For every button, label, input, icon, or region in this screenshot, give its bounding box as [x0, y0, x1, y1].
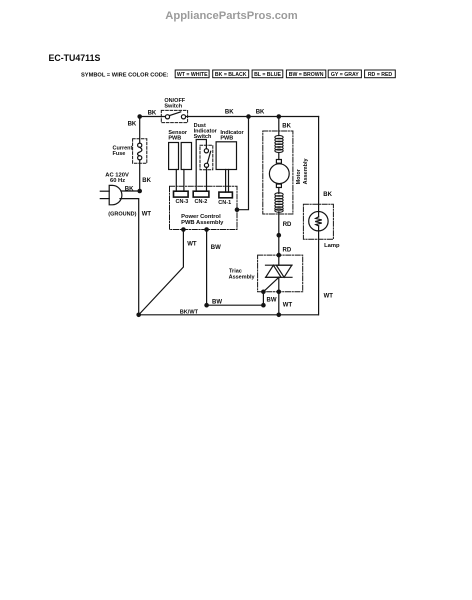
wire: coil to brush — [278, 153, 280, 160]
motor brush top — [276, 160, 281, 164]
lamp dashed enclosure — [303, 204, 333, 239]
node: triac box top terminal — [277, 253, 282, 258]
wire: motor feed BK from top rail junction — [278, 117, 280, 136]
svg-text:PWB: PWB — [220, 136, 233, 142]
svg-text:BL = BLUE: BL = BLUE — [254, 72, 281, 78]
svg-text:CN-1: CN-1 — [218, 200, 231, 206]
svg-text:RD: RD — [283, 222, 292, 228]
wire: BK vertical from fuse to plug node — [139, 160, 141, 191]
svg-text:(GROUND): (GROUND) — [108, 212, 136, 218]
wire: BW from PWB assembly down — [206, 230, 208, 306]
svg-text:BK: BK — [256, 110, 265, 116]
svg-text:BK: BK — [148, 110, 157, 116]
wire: sensor PWB left lead to CN-3 — [175, 170, 177, 192]
triac assembly dashed enclosure — [258, 255, 303, 292]
current fuse bottom contact — [138, 156, 142, 160]
svg-text:Lamp: Lamp — [324, 243, 340, 249]
node: plug hot / fuse junction — [137, 189, 142, 194]
lamp filament — [315, 217, 322, 226]
current fuse dashed enclosure — [133, 139, 147, 163]
wire: triac gate diagonal — [263, 277, 278, 292]
wire: top rail from on/off switch to top-right corner — [186, 116, 319, 118]
wire: triac top terminal to symbol — [278, 255, 280, 265]
svg-text:WT: WT — [187, 241, 197, 247]
current fuse element (s-curve) — [138, 147, 142, 155]
triac right triangle — [276, 265, 292, 277]
wire: gate down BW — [262, 292, 264, 305]
motor field coil top — [275, 136, 283, 153]
svg-text:BK: BK — [225, 110, 234, 116]
wire: RD from motor down to triac — [278, 212, 280, 255]
indicator PWB board — [216, 142, 236, 170]
svg-text:PWB: PWB — [168, 136, 181, 142]
wire: plug neutral lead going right then down (WT) — [120, 199, 139, 315]
current fuse top contact — [138, 143, 142, 147]
svg-text:GY = GRAY: GY = GRAY — [331, 72, 359, 78]
svg-text:Fuse: Fuse — [113, 151, 126, 157]
svg-text:Switch: Switch — [194, 134, 212, 140]
node: top rail to PWB feed — [246, 114, 251, 119]
lamp bulb — [309, 212, 328, 231]
node: triac gate at box edge — [261, 290, 266, 295]
svg-text:BK: BK — [282, 124, 291, 130]
node: top rail to motor — [277, 114, 282, 119]
node: PWB assembly WT terminal — [181, 227, 186, 232]
svg-text:BW: BW — [211, 245, 221, 251]
node: triac to bottom rail — [277, 313, 282, 318]
connector CN-1 — [219, 192, 233, 198]
node: RD mid junction — [277, 233, 282, 238]
AC plug body — [109, 185, 122, 204]
node: BW left end — [204, 303, 209, 308]
dust indicator switch lever — [207, 151, 210, 163]
wire: BW horizontal to triac gate — [207, 304, 264, 306]
on/off switch contact left — [165, 115, 169, 119]
node: top-left junction — [137, 114, 142, 119]
legend box RD = RED — [365, 70, 396, 78]
wire: triac anode drop to bottom rail — [278, 277, 280, 315]
dust indicator switch contact top — [204, 149, 208, 153]
motor field coil bottom — [275, 193, 283, 213]
wire: into lamp — [318, 212, 320, 218]
wire color labels — [125, 110, 333, 316]
node: triac anode at box edge — [277, 290, 282, 295]
wire: right BK drop from top rail corner down to lamp box — [318, 117, 320, 212]
node: PWB assembly BW terminal — [204, 227, 209, 232]
svg-text:CN-2: CN-2 — [195, 199, 208, 205]
svg-text:WT: WT — [324, 293, 334, 299]
AC plug prong top — [100, 190, 109, 192]
motor assembly dashed enclosure — [263, 131, 293, 214]
svg-text:Switch: Switch — [164, 104, 182, 110]
wire: BK feed from top rail down right side into PWB assembly — [237, 117, 249, 210]
svg-text:SYMBOL = WIRE COLOR CODE:: SYMBOL = WIRE COLOR CODE: — [81, 72, 169, 78]
svg-text:60 Hz: 60 Hz — [110, 178, 125, 184]
on/off switch dashed enclosure — [161, 110, 187, 122]
svg-text:EC-TU4711S: EC-TU4711S — [49, 53, 101, 63]
wire: top rail from node A to on/off switch — [140, 116, 166, 118]
legend box BW = BROWN — [286, 70, 325, 78]
wire: indicator PWB lead to CN-1 (double) — [225, 170, 227, 193]
connector CN-3 — [174, 191, 189, 197]
svg-text:BW: BW — [212, 299, 222, 305]
svg-text:BW = BROWN: BW = BROWN — [289, 72, 324, 78]
svg-text:BK: BK — [323, 192, 332, 198]
dust indicator switch contact bottom — [204, 163, 208, 167]
svg-text:WT = WHITE: WT = WHITE — [177, 72, 208, 78]
motor brush bottom — [276, 184, 281, 187]
wire: brush to coil — [278, 188, 280, 194]
svg-text:BK = BLACK: BK = BLACK — [215, 72, 247, 78]
connector CN-2 — [193, 191, 209, 197]
dust indicator switch body right lower edge — [206, 167, 208, 191]
sensor PWB right board — [181, 143, 191, 170]
svg-text:Assembly: Assembly — [303, 157, 309, 184]
svg-text:AppliancePartsPros.com: AppliancePartsPros.com — [165, 10, 297, 22]
node: bottom-left corner — [136, 313, 141, 318]
node: PWB assembly right terminal — [235, 207, 240, 212]
dust indicator switch body outline — [196, 140, 206, 192]
on/off switch lever — [169, 112, 180, 116]
legend box GY = GRAY — [328, 70, 361, 78]
wire: plug hot lead to node B — [121, 190, 140, 192]
wire: sensor PWB right lead to CN-3 — [183, 170, 185, 192]
svg-text:CN-3: CN-3 — [176, 199, 189, 205]
svg-text:Motor: Motor — [296, 168, 302, 184]
power control PWB assembly enclosure — [170, 186, 238, 229]
legend box BK = BLACK — [213, 70, 249, 78]
wire: WT from PWB assembly down then diagonal to bottom-left corner — [139, 230, 184, 315]
sensor PWB left board — [169, 143, 179, 170]
wire: lamp to bottom rail (WT) — [318, 226, 320, 315]
svg-text:RD = RED: RD = RED — [368, 72, 393, 78]
svg-text:BK: BK — [125, 186, 134, 192]
triac left triangle — [266, 265, 281, 277]
wire: bottom rail BK/WT and WT — [139, 314, 319, 316]
on/off switch contact right — [181, 115, 185, 119]
component name labels — [105, 98, 340, 280]
triac bottom rail — [266, 276, 293, 278]
legend box WT = WHITE — [175, 70, 209, 78]
svg-text:BK: BK — [142, 178, 151, 184]
triac top rail — [266, 264, 293, 266]
node: BW corner — [261, 303, 266, 308]
svg-text:BW: BW — [267, 298, 277, 304]
svg-text:WT: WT — [283, 303, 293, 309]
wire: BK vertical from node A down to current fuse — [139, 117, 141, 144]
svg-text:RD: RD — [283, 248, 292, 254]
legend box BL = BLUE — [252, 70, 283, 78]
svg-text:PWB Assembly: PWB Assembly — [181, 220, 224, 226]
svg-text:BK: BK — [128, 122, 137, 128]
junction dots — [136, 114, 281, 317]
svg-text:Assembly: Assembly — [229, 274, 256, 280]
motor armature — [269, 164, 289, 184]
dust indicator switch dashed enclosure — [200, 145, 213, 170]
svg-text:BK/WT: BK/WT — [180, 309, 199, 315]
svg-text:WT: WT — [142, 212, 152, 218]
AC plug prong bottom — [100, 198, 109, 200]
